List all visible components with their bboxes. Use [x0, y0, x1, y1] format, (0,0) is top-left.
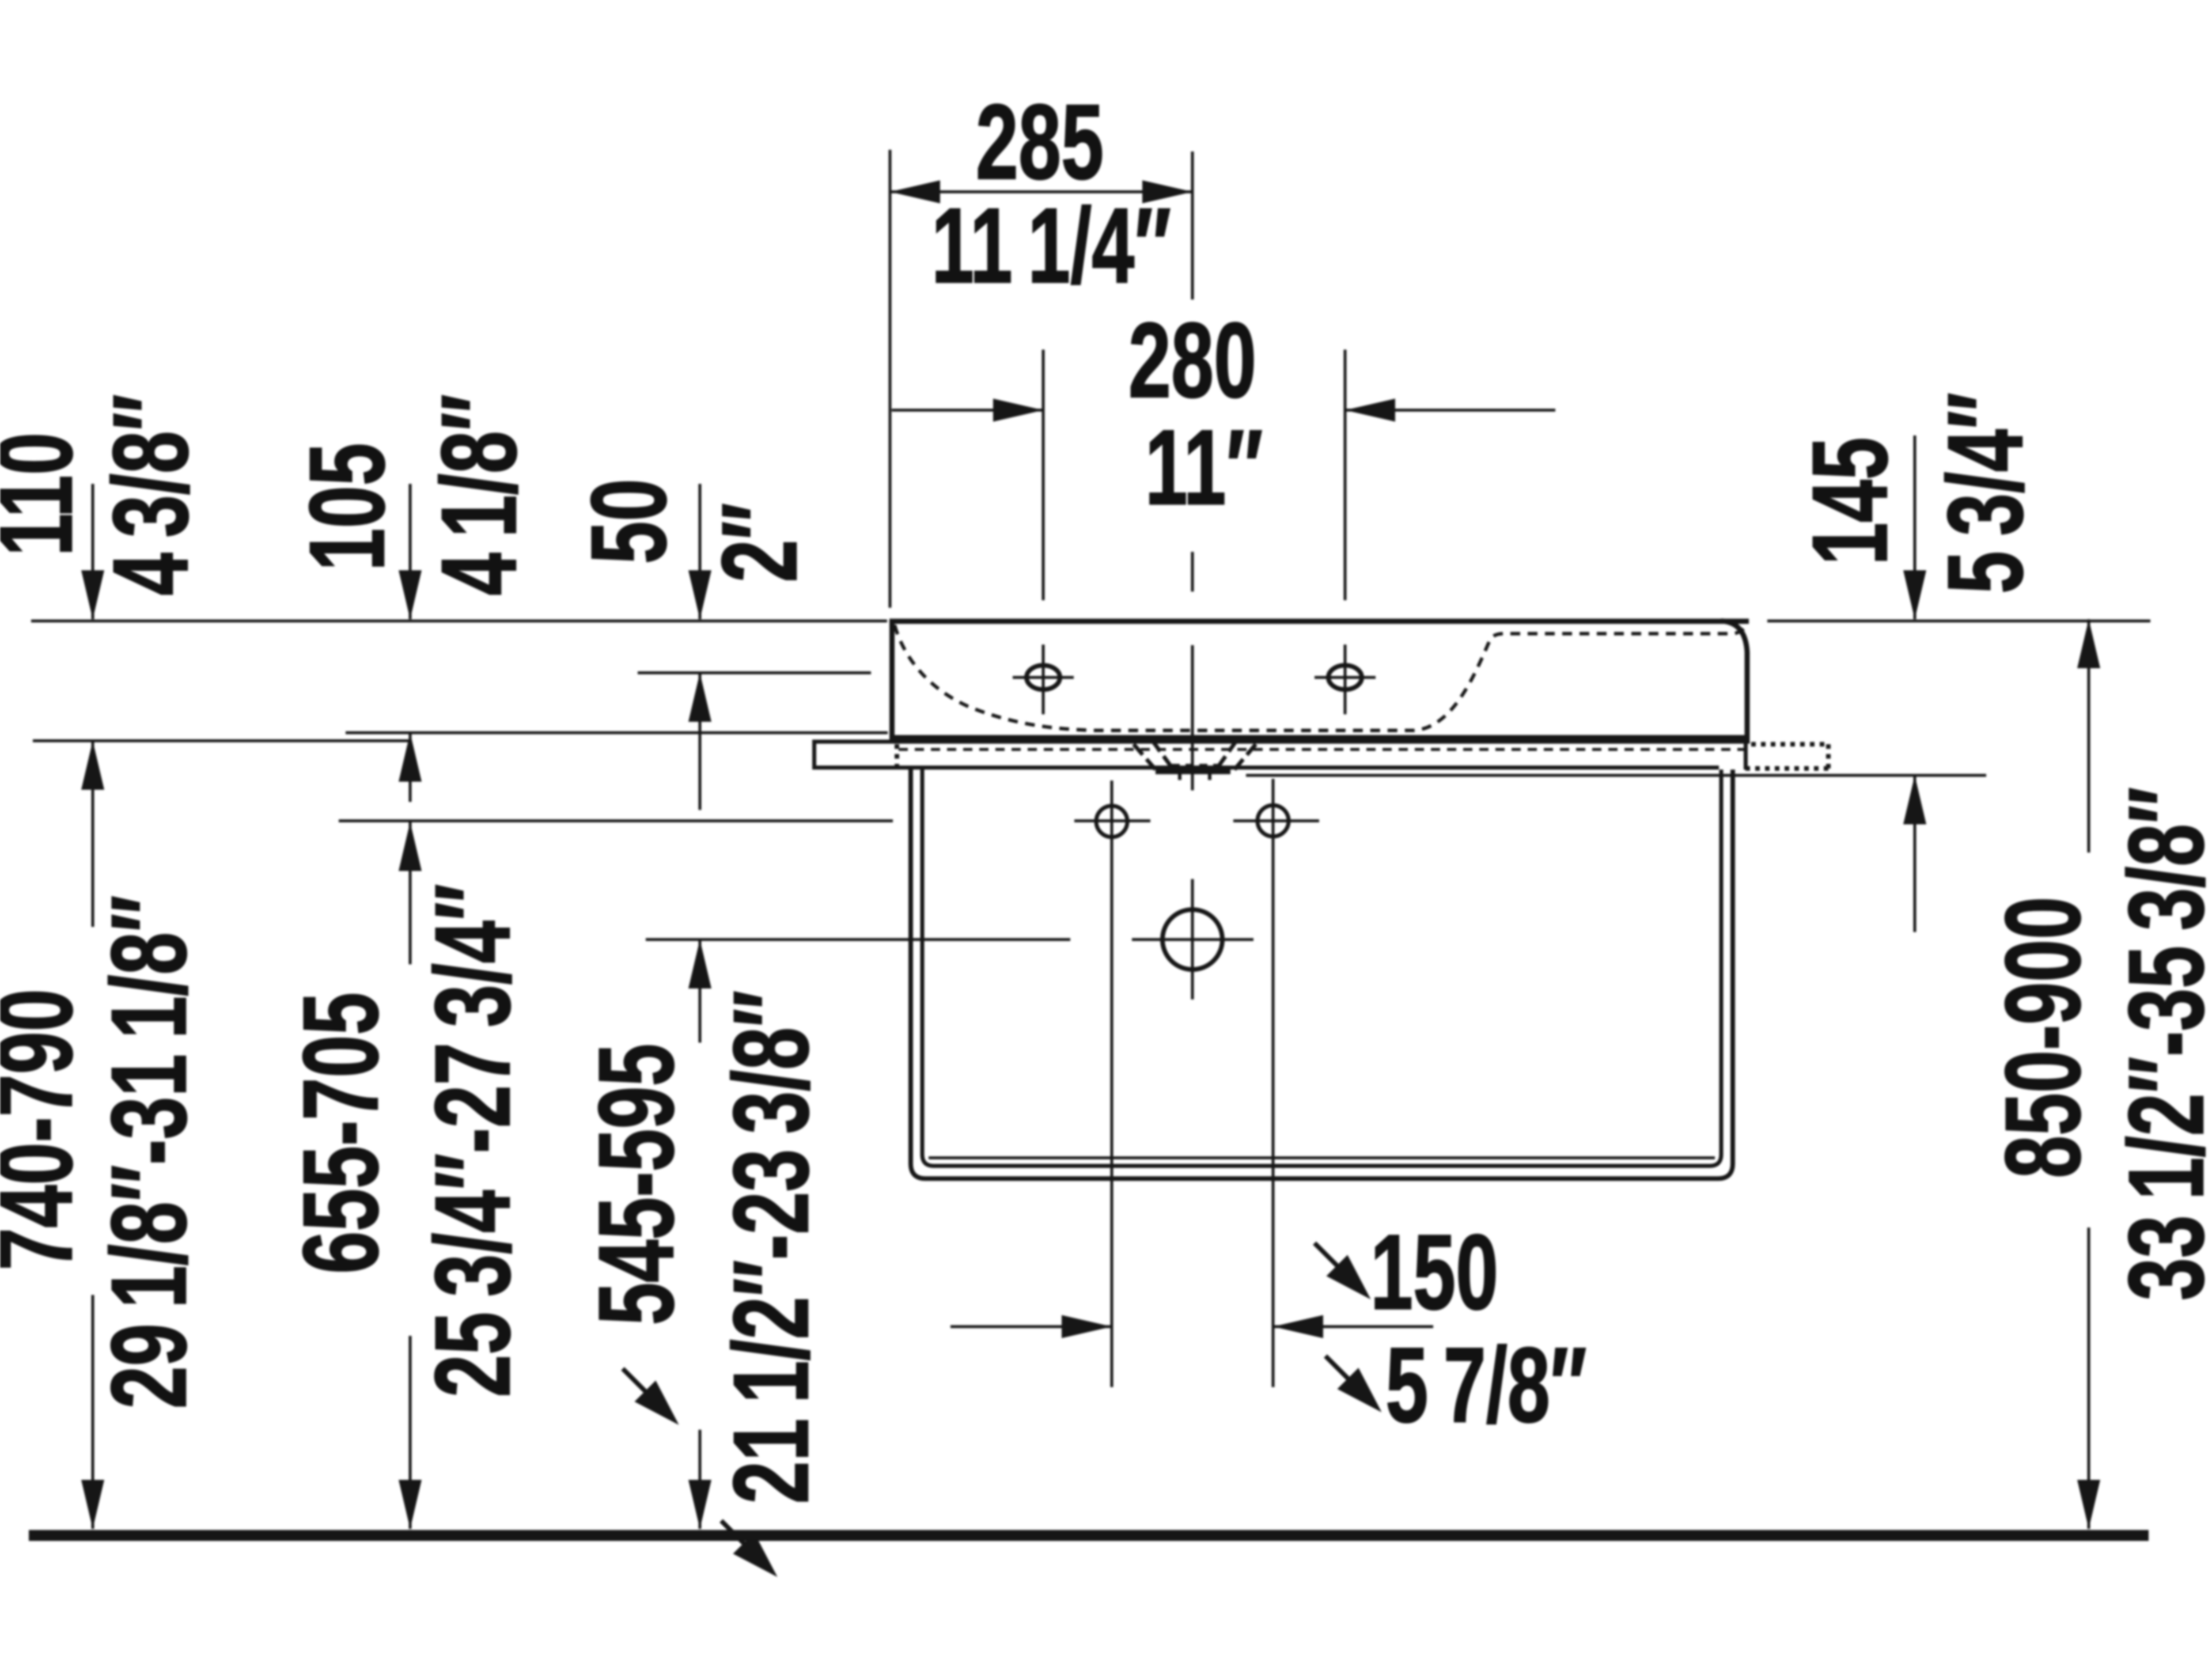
- svg-text:5 7/8″: 5 7/8″: [1385, 1326, 1586, 1445]
- svg-text:145: 145: [1791, 437, 1910, 565]
- svg-text:5 3/4″: 5 3/4″: [1926, 392, 2046, 593]
- svg-text:25 3/4″-27 3/4″: 25 3/4″-27 3/4″: [414, 884, 533, 1397]
- svg-text:50: 50: [570, 479, 689, 564]
- svg-text:33 1/2″-35 3/8″: 33 1/2″-35 3/8″: [2107, 787, 2212, 1300]
- svg-text:105: 105: [288, 443, 407, 571]
- svg-text:11 1/4″: 11 1/4″: [931, 187, 1171, 306]
- svg-text:850-900: 850-900: [1984, 897, 2103, 1179]
- svg-text:29 1/8″-31 1/8″: 29 1/8″-31 1/8″: [90, 895, 209, 1408]
- svg-text:280: 280: [1128, 301, 1256, 421]
- svg-text:150: 150: [1370, 1213, 1498, 1332]
- svg-text:655-705: 655-705: [282, 993, 401, 1274]
- svg-text:4 3/8″: 4 3/8″: [92, 394, 211, 595]
- svg-text:21 1/2″-23 3/8″: 21 1/2″-23 3/8″: [712, 990, 831, 1503]
- svg-text:110: 110: [0, 433, 94, 556]
- svg-text:4 1/8″: 4 1/8″: [420, 394, 539, 595]
- svg-text:740-790: 740-790: [0, 989, 94, 1271]
- svg-text:11″: 11″: [1145, 408, 1263, 528]
- svg-text:285: 285: [976, 83, 1104, 202]
- svg-text:545-595: 545-595: [577, 1044, 696, 1325]
- svg-text:2″: 2″: [700, 503, 820, 582]
